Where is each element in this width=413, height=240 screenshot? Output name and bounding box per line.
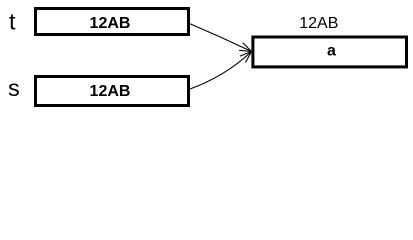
edge s to a shaft — [190, 52, 252, 90]
edge t to a arrowhead — [239, 43, 251, 52]
svg-text:12AB: 12AB — [90, 83, 131, 100]
svg-text:s: s — [8, 75, 20, 101]
svg-text:12AB: 12AB — [299, 15, 338, 32]
edge s to a arrowhead — [240, 52, 252, 63]
edge t to a shaft — [190, 24, 252, 52]
node a box — [253, 37, 407, 67]
svg-text:12AB: 12AB — [90, 15, 131, 32]
svg-text:a: a — [327, 42, 336, 59]
node s box — [36, 77, 189, 106]
node t box — [36, 9, 189, 35]
svg-text:t: t — [9, 9, 16, 35]
